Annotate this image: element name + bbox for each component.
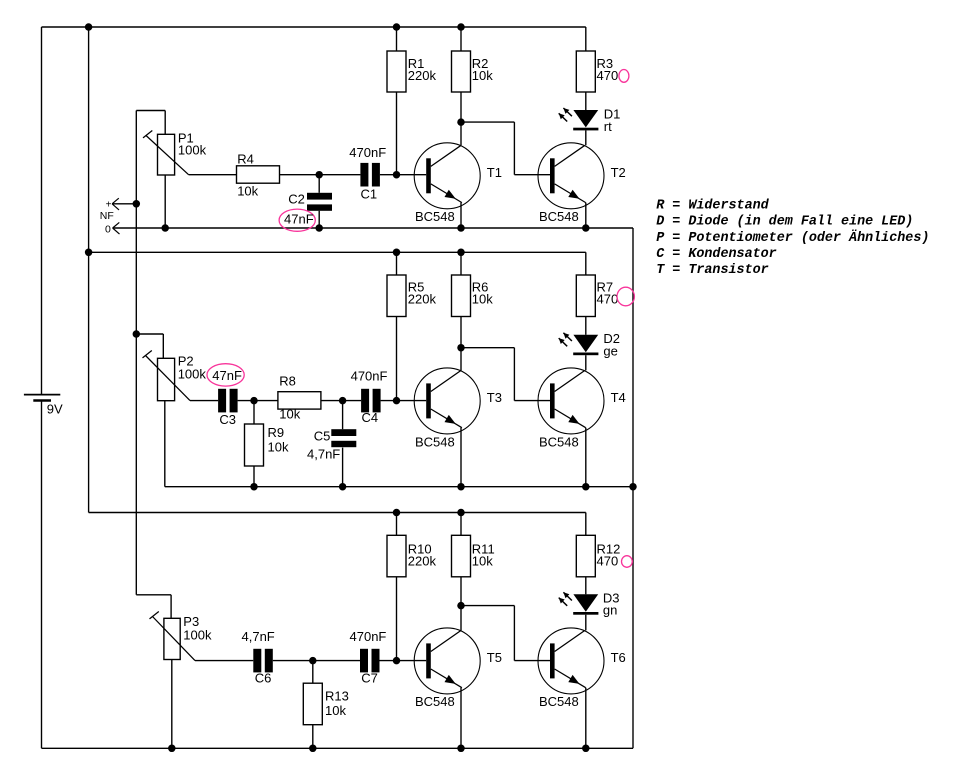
wire C6 to C7 — [273, 660, 360, 662]
junction R13 / ground rail — [309, 745, 317, 753]
transistor T3 BC548 — [414, 368, 480, 434]
wire C7 to T5 base — [380, 660, 427, 662]
svg-text:220k: 220k — [408, 553, 437, 568]
junction T6 emitter / ground rail — [582, 745, 590, 753]
svg-text:10k: 10k — [237, 184, 258, 199]
circled label C3 value 47nF — [207, 364, 244, 386]
svg-text:BC548: BC548 — [415, 209, 455, 224]
wire stage2 V+ rail — [89, 251, 586, 253]
svg-text:T4: T4 — [611, 390, 626, 405]
junction feed / top rail — [85, 23, 93, 31]
svg-text:T3: T3 — [487, 390, 502, 405]
wire NF signal vertical — [135, 111, 137, 595]
resistor R13 10k — [303, 661, 322, 749]
transistor T1 BC548 — [414, 143, 480, 209]
svg-text:T2: T2 — [611, 165, 626, 180]
wire C4 to T3 base — [381, 400, 427, 402]
transistor T6 BC548 — [538, 628, 604, 694]
svg-text:470nF: 470nF — [351, 369, 388, 384]
svg-text:T5: T5 — [487, 650, 502, 665]
resistor R6 10k — [452, 252, 471, 347]
capacitor C7 470nF — [360, 649, 380, 673]
circled mark at R12 value — [622, 556, 633, 568]
wire C1 to T1 base — [380, 174, 426, 176]
svg-text:220k: 220k — [408, 68, 437, 83]
junction P2 bracket / NF vertical — [133, 330, 141, 338]
junction T1 emitter / ground rail — [457, 224, 465, 232]
wire P3 bottom leg — [171, 660, 173, 749]
transistor T2 BC548 — [538, 143, 604, 209]
svg-text:10k: 10k — [472, 68, 493, 83]
wire P2 wiper to C3 — [190, 400, 218, 402]
battery BAT 9V plus wire — [41, 27, 43, 395]
wire T1 emitter to ground — [460, 203, 462, 228]
svg-text:470: 470 — [597, 68, 619, 83]
junction T5 emitter / ground rail — [457, 745, 465, 753]
resistor R4 — [237, 166, 280, 183]
potentiometer P1 — [143, 131, 189, 176]
wire T3 emitter to ground — [460, 428, 462, 487]
diode D2 LED — [559, 333, 599, 355]
junction R13 tap — [309, 657, 317, 665]
svg-text:470nF: 470nF — [350, 629, 387, 644]
junction T5 collector node — [457, 602, 465, 610]
svg-text:C7: C7 — [361, 671, 378, 686]
wire right return vertical — [632, 228, 634, 748]
svg-text:C1: C1 — [361, 186, 378, 201]
svg-text:BC548: BC548 — [539, 694, 579, 709]
wire P3 wiper to C6 — [195, 660, 253, 662]
svg-text:10k: 10k — [325, 703, 346, 718]
svg-text:10k: 10k — [268, 439, 289, 454]
junction R10 / stage3 rail — [393, 509, 401, 517]
junction R9 / ground rail — [250, 483, 258, 491]
junction T1 collector node — [457, 118, 465, 126]
resistor R5 220k — [387, 252, 406, 400]
junction P3 / ground rail — [168, 745, 176, 753]
capacitor C1 470nF — [360, 163, 380, 187]
wire D1 to T2 collector — [585, 130, 587, 145]
wire T1 collector — [460, 122, 462, 145]
svg-text:R13: R13 — [325, 688, 349, 703]
svg-text:C4: C4 — [362, 410, 379, 425]
svg-text:BC548: BC548 — [539, 434, 579, 449]
svg-text:R9: R9 — [268, 425, 285, 440]
junction NF plus / signal vertical — [133, 200, 141, 208]
wire C3 to R8 — [238, 400, 278, 402]
svg-text:10k: 10k — [472, 292, 493, 307]
svg-text:BC548: BC548 — [539, 209, 579, 224]
svg-text:D = Diode (in dem Fall eine LE: D = Diode (in dem Fall eine LED) — [656, 215, 913, 230]
wire link T3 collector to T4 base — [461, 348, 550, 401]
wire bottom ground rail — [42, 747, 634, 749]
svg-text:BC548: BC548 — [415, 434, 455, 449]
svg-text:470: 470 — [597, 292, 619, 307]
svg-text:+: + — [106, 200, 112, 211]
junction right return / stage2 ground — [629, 483, 637, 491]
svg-text:100k: 100k — [178, 143, 207, 158]
wire R8 to C4 — [321, 400, 361, 402]
svg-text:100k: 100k — [183, 627, 212, 642]
wire link T5 collector to T6 base — [461, 606, 550, 661]
battery BAT 9V long plate — [24, 394, 60, 396]
wire T3 collector — [460, 348, 462, 371]
junction T3 collector node — [457, 344, 465, 352]
wire T2 emitter to ground — [585, 203, 587, 228]
wire T6 emitter to ground — [585, 688, 587, 749]
junction R11 / stage3 rail — [457, 509, 465, 517]
potentiometer P3 — [150, 612, 196, 661]
wire D2 to T4 collector — [585, 355, 587, 370]
svg-text:0: 0 — [105, 223, 111, 235]
svg-text:C2: C2 — [288, 191, 305, 206]
battery BAT 9V minus wire — [41, 401, 43, 749]
svg-text:BC548: BC548 — [415, 694, 455, 709]
junction feed / stage2 rail — [85, 249, 93, 256]
svg-text:470: 470 — [597, 553, 619, 568]
junction C2 / ground rail — [315, 224, 323, 232]
svg-text:4,7nF: 4,7nF — [307, 447, 340, 462]
resistor R2 10k — [452, 27, 471, 122]
wire stage1 ground rail — [113, 227, 633, 229]
wire D3 to T6 collector — [585, 615, 587, 631]
junction T3 emitter / ground rail — [457, 483, 465, 491]
wire P3 bracket — [136, 595, 171, 619]
resistor R1 220k — [387, 27, 406, 175]
capacitor C4 470nF — [361, 389, 381, 413]
svg-text:C3: C3 — [219, 412, 236, 427]
wire V+ feed vertical — [88, 27, 90, 513]
resistor R7 470 — [576, 252, 595, 334]
junction C5 tap — [339, 397, 347, 405]
diode D3 LED — [559, 592, 599, 614]
svg-text:9V: 9V — [47, 402, 63, 417]
transistor T5 BC548 — [414, 628, 480, 694]
transistor T4 BC548 — [538, 368, 604, 434]
junction R2 / top rail — [457, 23, 465, 31]
potentiometer P2 — [143, 351, 191, 401]
svg-text:470nF: 470nF — [349, 145, 386, 160]
circled mark at R7 value — [617, 287, 634, 306]
svg-text:T1: T1 — [487, 165, 502, 180]
junction R1 / top rail — [393, 23, 401, 31]
svg-text:ge: ge — [603, 343, 617, 358]
svg-text:P = Potentiometer (oder Ähnlic: P = Potentiometer (oder Ähnliches) — [656, 230, 929, 246]
svg-text:rt: rt — [604, 119, 612, 134]
capacitor C3 47nF — [218, 389, 238, 413]
svg-text:R8: R8 — [279, 374, 296, 389]
wire link T1 collector to T2 base — [461, 122, 550, 175]
wire T5 emitter to ground — [460, 688, 462, 749]
resistor R8 10k — [278, 392, 321, 409]
wire stage3 V+ rail — [89, 512, 586, 514]
wire R4 to C1 — [280, 174, 361, 176]
resistor R11 10k — [452, 513, 471, 606]
node NF plus input arrow — [112, 198, 136, 210]
circled label C2 value 47nF — [279, 209, 315, 231]
circled mark at R3 value — [619, 70, 629, 83]
svg-text:C = Kondensator: C = Kondensator — [656, 247, 777, 262]
svg-text:100k: 100k — [178, 367, 207, 382]
resistor R3 470 — [576, 27, 595, 110]
junction C5 / ground rail — [339, 483, 347, 491]
svg-text:10k: 10k — [279, 407, 300, 422]
svg-text:4,7nF: 4,7nF — [242, 629, 275, 644]
wire P2 bottom leg — [164, 401, 166, 487]
resistor R10 220k — [387, 513, 406, 661]
wire P1 wiper to R4 — [189, 174, 237, 176]
svg-text:gn: gn — [603, 603, 617, 618]
svg-text:C6: C6 — [255, 671, 272, 686]
battery BAT 9V short plate — [33, 399, 51, 401]
junction T3 base node — [393, 397, 401, 405]
diode D1 LED — [559, 108, 599, 130]
resistor R12 470 — [576, 513, 595, 595]
junction R9 tap — [250, 397, 258, 405]
node NF 0 input arrow — [113, 222, 120, 234]
svg-text:R4: R4 — [237, 152, 254, 167]
junction R6 / stage2 rail — [457, 249, 465, 256]
svg-text:T = Transistor: T = Transistor — [656, 263, 769, 278]
wire stage2 ground rail — [165, 486, 633, 488]
junction T4 emitter / ground rail — [582, 483, 590, 491]
wire P1 bracket — [136, 111, 165, 135]
svg-text:10k: 10k — [472, 553, 493, 568]
capacitor C5 4,7nF — [331, 401, 356, 487]
junction P1 / ground rail — [161, 224, 169, 232]
svg-text:NF: NF — [100, 210, 114, 222]
junction T1 base node — [393, 171, 401, 179]
svg-text:C5: C5 — [314, 428, 331, 443]
wire T5 collector — [460, 606, 462, 631]
wire V+ top rail — [42, 26, 586, 28]
svg-text:T6: T6 — [611, 650, 626, 665]
wire T4 emitter to ground — [585, 428, 587, 487]
svg-text:47nF: 47nF — [212, 368, 242, 383]
wire P2 bracket — [136, 334, 163, 358]
svg-text:47nF: 47nF — [284, 211, 314, 226]
svg-text:220k: 220k — [408, 292, 437, 307]
capacitor C2 47nF — [307, 175, 332, 228]
capacitor C6 4,7nF — [253, 649, 272, 673]
svg-text:R = Widerstand: R = Widerstand — [656, 198, 769, 213]
junction T2 emitter / ground rail — [582, 224, 590, 232]
junction T5 base node — [393, 657, 401, 665]
junction C2 tap — [315, 171, 323, 179]
wire P1 bottom leg — [164, 175, 166, 228]
junction R5 / stage2 rail — [393, 249, 401, 256]
resistor R9 10k — [245, 401, 264, 487]
